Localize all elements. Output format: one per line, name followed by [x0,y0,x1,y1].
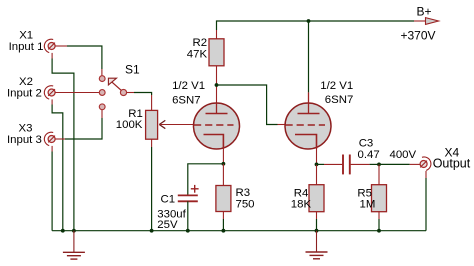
svg-text:750: 750 [236,199,255,211]
svg-text:25V: 25V [157,219,178,231]
wire output node to X4 [379,163,420,165]
svg-text:Input 1: Input 1 [9,41,44,53]
wire coupling to V1b grid [217,85,286,125]
svg-text:6SN7: 6SN7 [325,94,354,106]
capacitor C1 (electrolytic) [178,185,199,201]
svg-text:1M: 1M [360,199,376,211]
triode V1a (1/2 6SN7) [194,103,240,149]
resistor R4 [309,185,324,212]
wire V1a cathode down [222,147,224,164]
supply arrow B+ [426,18,439,25]
svg-text:18K: 18K [291,198,312,210]
svg-text:Input 2: Input 2 [7,87,42,99]
wire S1 top contact pin [101,69,103,76]
svg-text:1/2 V1: 1/2 V1 [320,80,353,92]
connector X4 [420,157,431,170]
wire rail down to V1b plate [308,21,310,92]
wire C1 bottom to ground bus [187,201,189,230]
wire cathode node to R4 [316,164,318,184]
wire S1 pole to R1 top [127,93,152,111]
junction bus R3 [222,229,226,233]
wire B+ rail [217,21,415,30]
svg-text:Output: Output [433,156,471,170]
wire R5 bottom to ground bus [378,212,380,231]
resistor R3 [216,186,231,212]
svg-text:+370V: +370V [401,29,436,43]
junction bus R5 [377,229,381,233]
connector X3 [44,132,55,145]
wire R4 bottom to ground bus [316,212,318,231]
wire R3 bottom to ground bus [222,212,224,231]
wire cathode node to R3 [222,164,224,186]
ground symbol right [306,231,328,259]
svg-text:100K: 100K [116,119,143,131]
wire output node to R5 [378,164,380,184]
wire C3 to output node [351,163,379,165]
junction bus X1 ground [72,229,76,233]
svg-text:R2: R2 [193,37,208,49]
junction bus X2 ground [61,229,65,233]
svg-text:C3: C3 [359,138,374,150]
svg-text:C1: C1 [161,194,176,206]
svg-text:47K: 47K [187,48,208,60]
junction plate coupling node [215,83,219,87]
wire X2 to S1 middle [55,92,99,94]
wire ground bus [52,230,426,232]
ground symbol left [63,231,85,259]
wire B+ stub [414,20,426,22]
svg-text:R3: R3 [236,187,251,199]
wire X3 to S1 bottom [55,110,102,139]
svg-text:Input 3: Input 3 [7,134,42,146]
wire R2 bottom to V1a plate [216,66,218,104]
junction rail to V1b plate [307,19,311,23]
svg-text:0.47: 0.47 [358,149,380,161]
resistor R5 [372,185,387,212]
svg-text:B+: B+ [417,5,432,19]
junction bus R4 [315,229,319,233]
resistor R2 [209,39,224,66]
junction output node [377,163,381,167]
svg-text:S1: S1 [125,63,140,77]
wire V1b cathode down [316,147,318,164]
wire X1 to S1 top [67,46,102,69]
junction V1a cathode node [222,162,226,166]
wire X2 sleeve to ground [52,99,63,230]
svg-text:6SN7: 6SN7 [172,94,201,106]
wire cathode node to C1 [188,164,224,195]
triode V1b (1/2 6SN7) [285,92,331,149]
switch S1 [99,76,126,110]
junction bus C1 [186,229,190,233]
wire X1 sleeve to ground [52,53,74,231]
wire R2 top stub [216,30,218,39]
capacitor C3 [343,155,350,175]
junction bus R1 [150,229,154,233]
connector X1 [44,39,55,52]
svg-text:400V: 400V [390,149,417,161]
connector X2 [44,86,55,99]
wire R1 bottom to ground bus [151,139,153,231]
wire X4 sleeve to ground bus [425,171,427,231]
wire X1 pin stub [55,45,67,47]
junction V1b cathode node [315,163,319,167]
potentiometer R1 [146,110,166,139]
wire R1 wiper to V1a grid [159,124,194,126]
svg-text:1/2 V1: 1/2 V1 [172,80,205,92]
wire X3 sleeve to ground bus [51,146,53,231]
wire cathode node to C3 [317,163,343,165]
